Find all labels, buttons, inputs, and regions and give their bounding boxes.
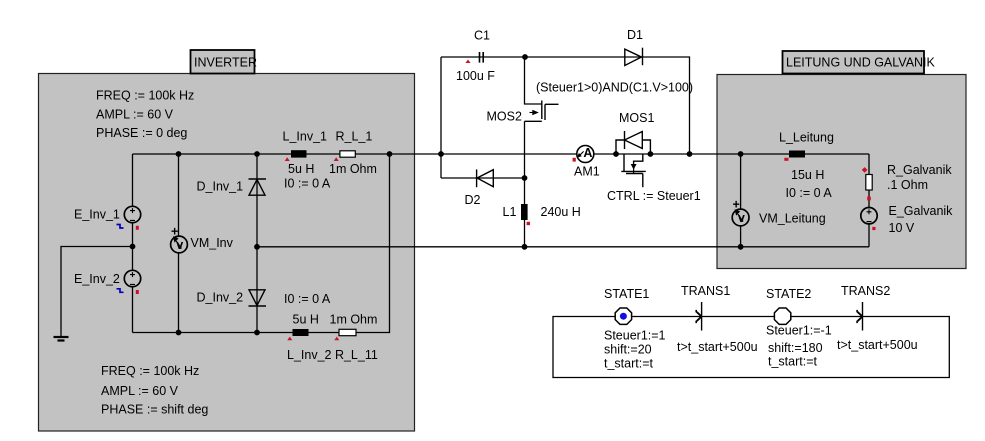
wire MOS2 drain [525, 57, 542, 104]
svg-text:PHASE := shift deg: PHASE := shift deg [101, 403, 208, 417]
svg-text:I0 := 0 A: I0 := 0 A [284, 177, 331, 191]
svg-text:L1: L1 [503, 205, 517, 219]
svg-text:TRANS1: TRANS1 [681, 284, 730, 298]
wire ground branch [61, 247, 133, 337]
subsheet box LEITUNG UND GALVANIK [717, 75, 966, 269]
svg-text:100u F: 100u F [456, 69, 495, 83]
junction mid rail / E_Inv sources [130, 244, 136, 250]
svg-text:+: + [171, 225, 178, 239]
source E_Inv_1 [117, 206, 141, 230]
svg-text:E_Inv_2: E_Inv_2 [74, 272, 120, 286]
source E_Inv_2 [117, 270, 141, 294]
label box LEITUNG UND GALVANIK [783, 51, 936, 74]
junction top bus / VM_Leitung [738, 151, 744, 157]
svg-text:t>t_start+500u: t>t_start+500u [837, 338, 918, 352]
wire top bus [133, 153, 870, 155]
diode D2 [477, 169, 494, 187]
wire E_Inv vertical [132, 154, 134, 333]
transition TRANS1 [696, 302, 701, 331]
mosfet MOS1 with body diode [616, 131, 650, 187]
diode D_Inv_1 [249, 179, 267, 195]
junction D2 cathode / MOS2 source / L1 [522, 175, 528, 181]
STATE MACHINE [553, 317, 949, 378]
state STATE1 [615, 308, 631, 324]
svg-text:AMPL := 60 V: AMPL := 60 V [96, 108, 174, 122]
svg-text:A: A [583, 146, 592, 160]
inductor L_Leitung [784, 151, 805, 161]
svg-text:AMPL := 60 V: AMPL := 60 V [101, 384, 179, 398]
inductor L1 [521, 204, 530, 225]
svg-text:1m Ohm: 1m Ohm [330, 313, 378, 327]
svg-text:1m Ohm: 1m Ohm [329, 162, 377, 176]
svg-text:L_Inv_1: L_Inv_1 [283, 130, 328, 144]
ammeter AM1 [573, 146, 594, 163]
diode D1 [625, 48, 643, 66]
svg-text:R_Galvanik: R_Galvanik [887, 163, 952, 177]
wire state loop [553, 317, 949, 378]
subsheet box INVERTER [39, 74, 415, 432]
svg-text:5u H: 5u H [293, 313, 319, 327]
junction top bus / MOS1 source [648, 151, 654, 157]
svg-text:R_L_1: R_L_1 [336, 130, 373, 144]
resistor R_L_1 [334, 151, 356, 161]
wire diode chain vertical [256, 154, 258, 333]
inverter parameter text block 1 [74, 89, 378, 417]
resistor R_L_11 [334, 329, 356, 340]
junction top bus / VM_Inv [176, 151, 182, 157]
voltmeter VM_Leitung [732, 198, 749, 226]
svg-text:L_Inv_2 R_L_11: L_Inv_2 R_L_11 [287, 348, 378, 362]
junction bottom rail / D_Inv_2 [254, 330, 260, 336]
inductor L_Inv_1 [285, 150, 307, 161]
svg-text:STATE2: STATE2 [766, 287, 811, 301]
diode D_Inv_2 [249, 290, 267, 306]
wire D2 branch [441, 177, 525, 179]
svg-text:t_start:=t: t_start:=t [604, 357, 654, 371]
svg-text:t>t_start+500u: t>t_start+500u [677, 340, 758, 354]
svg-text:VM_Leitung: VM_Leitung [759, 212, 826, 226]
svg-text:L_Leitung: L_Leitung [779, 131, 834, 145]
svg-text:VM_Inv: VM_Inv [191, 236, 234, 250]
svg-text:D_Inv_1: D_Inv_1 [197, 180, 244, 194]
svg-text:FREQ := 100k Hz: FREQ := 100k Hz [101, 364, 199, 378]
resistor R_Galvanik [862, 167, 872, 200]
wire E_Galvanik branch [868, 154, 870, 247]
svg-text:D2: D2 [465, 193, 481, 207]
wire VM_Leitung vertical [740, 154, 742, 247]
junction mid rail / L1 [522, 244, 528, 250]
svg-text:E_Galvanik: E_Galvanik [889, 204, 954, 218]
wire MOS2-L1 vertical [524, 121, 526, 247]
junction mid rail / diode chain [254, 244, 260, 250]
svg-text:v: v [738, 211, 745, 225]
label box INVERTER [191, 50, 257, 74]
wire VM_Inv vertical [178, 154, 180, 333]
svg-text:+: + [733, 198, 740, 212]
state STATE2 [774, 308, 790, 324]
junction top bus / D1 cathode riser [687, 151, 693, 157]
svg-text:CTRL := Steuer1: CTRL := Steuer1 [607, 189, 701, 203]
svg-text:TRANS2: TRANS2 [841, 284, 890, 298]
junction top bus / lower half-bridge riser [387, 151, 393, 157]
inductor L_Inv_2 [287, 329, 308, 340]
source E_Galvanik [861, 208, 877, 231]
junction mid rail / VM_Leitung [738, 244, 744, 250]
junction bottom rail / VM_Inv [176, 330, 182, 336]
svg-text:D1: D1 [627, 28, 643, 42]
svg-text:E_Inv_1: E_Inv_1 [74, 208, 120, 222]
svg-text:240u H: 240u H [541, 205, 581, 219]
svg-text:MOS1: MOS1 [619, 111, 654, 125]
transition TRANS2 [857, 302, 862, 331]
svg-text:shift:=180: shift:=180 [768, 341, 823, 355]
svg-text:15u H: 15u H [791, 168, 824, 182]
voltmeter VM_Inv [171, 225, 188, 253]
junction C1 / D1 / MOS2 drain [522, 54, 528, 60]
svg-text:D_Inv_2: D_Inv_2 [197, 291, 244, 305]
junction top bus / C1-D2 branch [438, 151, 444, 157]
mosfet MOS2 [525, 101, 559, 122]
svg-text:v: v [176, 238, 183, 252]
svg-text:STATE1: STATE1 [604, 287, 649, 301]
junction top bus / D_Inv_1 [254, 151, 260, 157]
svg-text:I0 := 0 A: I0 := 0 A [284, 292, 331, 306]
svg-text:(Steuer1>0)AND(C1.V>100): (Steuer1>0)AND(C1.V>100) [536, 81, 693, 95]
svg-text:PHASE := 0 deg: PHASE := 0 deg [96, 126, 187, 140]
wire left vertical C1-D2 [440, 57, 442, 178]
capacitor C1 [466, 52, 484, 63]
svg-text:Steuer1:=-1: Steuer1:=-1 [766, 324, 832, 338]
wire D1 branch [525, 57, 690, 154]
svg-text:5u H: 5u H [288, 162, 314, 176]
wire bottom rail [133, 154, 390, 333]
wire mid rail [257, 246, 869, 248]
junction top bus / MOS1 drain [613, 151, 619, 157]
wire C1 branch [441, 56, 525, 58]
svg-text:FREQ := 100k Hz: FREQ := 100k Hz [96, 89, 194, 103]
svg-text:t_start:=t: t_start:=t [768, 355, 818, 369]
svg-text:10 V: 10 V [889, 221, 915, 235]
svg-text:INVERTER: INVERTER [194, 56, 257, 70]
ground [54, 337, 69, 341]
svg-text:Steuer1:=1: Steuer1:=1 [604, 329, 666, 343]
svg-text:MOS2: MOS2 [487, 110, 522, 124]
svg-text:shift:=20: shift:=20 [604, 343, 652, 357]
svg-text:LEITUNG UND GALVANIK: LEITUNG UND GALVANIK [786, 56, 936, 70]
svg-text:AM1: AM1 [574, 165, 600, 179]
svg-text:.1 Ohm: .1 Ohm [887, 178, 928, 192]
svg-text:I0 := 0 A: I0 := 0 A [786, 186, 833, 200]
svg-text:C1: C1 [474, 29, 490, 43]
